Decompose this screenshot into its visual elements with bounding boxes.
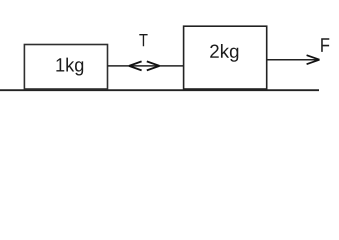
force F arrow shaft [267, 59, 318, 61]
wire: connecting string between blocks [108, 65, 184, 67]
block M1 (1kg box) [24, 45, 107, 90]
block M2 (2kg box) [184, 26, 267, 89]
arrowhead left (tension arrow pointing left) [129, 61, 142, 70]
label 1kg [56, 58, 83, 76]
label F [321, 38, 329, 52]
label 2kg [210, 44, 238, 62]
arrowhead right (tension arrow pointing right) [147, 61, 160, 70]
ground line [0, 89, 319, 91]
label T [139, 34, 147, 46]
force F arrowhead [307, 55, 320, 64]
